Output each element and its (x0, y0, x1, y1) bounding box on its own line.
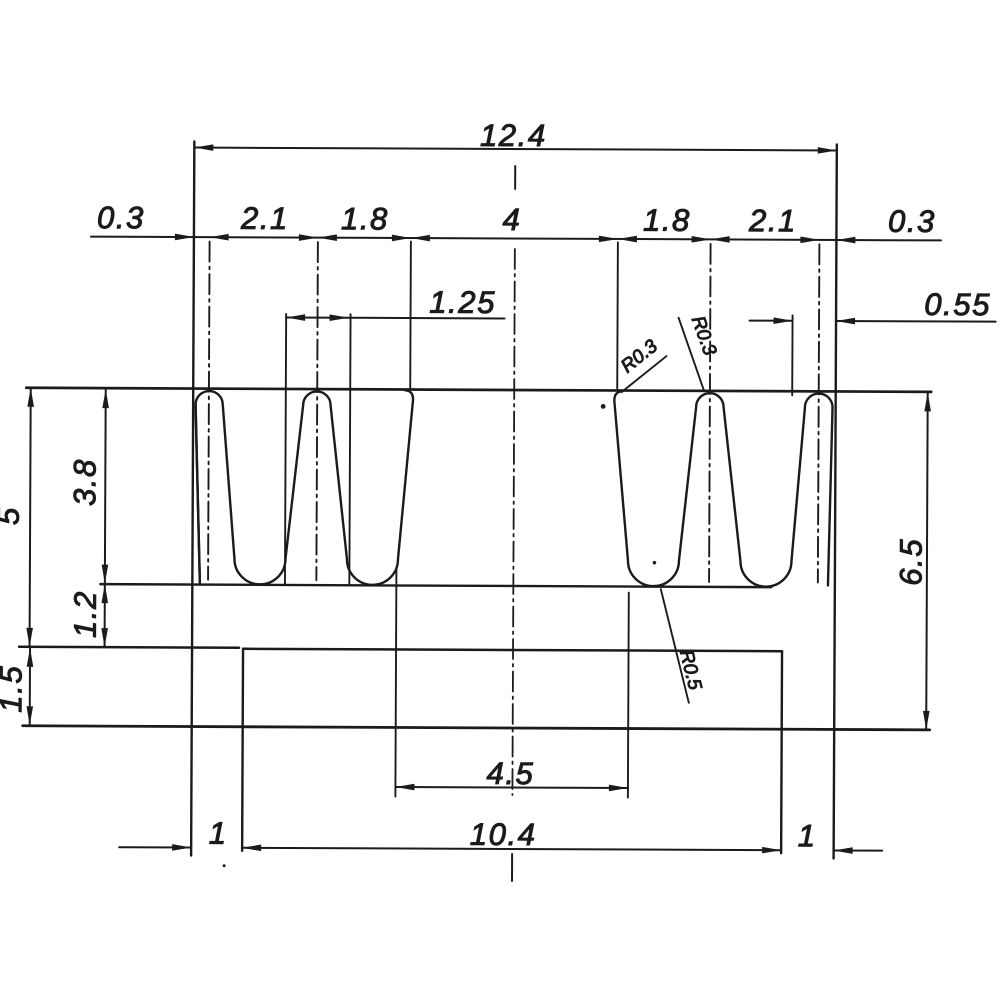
dimension 5 (0, 388, 34, 647)
extension line x=397 (4.5 left) (395, 569, 396, 796)
extension line x=350 (1.25 right) (349, 314, 350, 584)
dimension 1 right (798, 818, 883, 854)
svg-text:1.2: 1.2 (68, 590, 103, 638)
leader R0.3 (slot 5 cap) (678, 313, 720, 391)
svg-text:12.4: 12.4 (480, 118, 547, 153)
svg-text:1.5: 1.5 (0, 665, 28, 713)
svg-text:0.55: 0.55 (924, 287, 991, 322)
svg-text:1: 1 (798, 818, 817, 853)
svg-text:0.3: 0.3 (97, 200, 145, 235)
slot 1, fin A, slot 2, fin B, middle slot left wall (195, 389, 413, 585)
svg-text:2.1: 2.1 (748, 203, 797, 238)
dimension 1.5 (0, 648, 33, 726)
svg-text:2.1: 2.1 (240, 201, 289, 236)
dimension 1.25 (286, 284, 505, 322)
chain dimension row 0.3 / 2.1 / 1.8 / 4 / 1.8 / 2.1 / 0.3 (91, 200, 941, 244)
svg-text:3.8: 3.8 (67, 458, 102, 506)
svg-text:5: 5 (0, 506, 26, 525)
ink speck below base (223, 864, 226, 867)
right edge (834, 144, 837, 858)
slot 1 centerline (208, 242, 210, 580)
base top line (243, 649, 782, 651)
left lip line (19, 646, 239, 649)
svg-text:10.4: 10.4 (470, 817, 537, 852)
dimension 4.5 (395, 755, 628, 791)
leader R0.3 (middle slot corner) (617, 336, 666, 393)
dimension 1 left (119, 815, 228, 851)
dimension 10.4 (242, 816, 781, 854)
dimension 1.2 (68, 584, 109, 647)
svg-text:4.5: 4.5 (486, 756, 534, 791)
dimension 12.4 (194, 117, 837, 155)
dimension 0.55 (750, 286, 996, 325)
svg-text:1.8: 1.8 (643, 203, 691, 238)
extension line x=617 (616, 242, 619, 388)
extension line x=410 (409, 242, 412, 390)
base right edge (780, 651, 783, 853)
slot 2 centerline (316, 242, 318, 580)
ink dot near middle slot (601, 404, 606, 409)
svg-text:0.3: 0.3 (888, 204, 936, 239)
dimension 6.5 (893, 392, 931, 730)
dimension 3.8 (67, 389, 109, 584)
slot 5 centerline (709, 244, 711, 582)
base left edge (241, 649, 244, 851)
main vertical centerline (514, 166, 516, 189)
fin tip / slot floor line (100, 584, 771, 587)
svg-text:1.8: 1.8 (341, 201, 389, 236)
svg-text:1.25: 1.25 (429, 285, 496, 320)
ink dot on fin C (653, 561, 657, 565)
leader R0.5 (fin C tip) (660, 589, 705, 703)
extension line x=629.5 (4.5 right) (627, 593, 630, 798)
left edge (191, 142, 194, 856)
middle slot right wall, fin C, slot 5, fin D, slot 6 (614, 391, 833, 587)
bottom line (23, 726, 930, 730)
svg-text:1: 1 (209, 816, 228, 851)
extension line x=792 (0.55) (791, 315, 793, 395)
extension line x=285.6 (1.25 left) (285, 314, 286, 584)
slot 1 left wall (195, 405, 201, 583)
svg-text:6.5: 6.5 (893, 538, 928, 586)
slot 6 centerline (818, 244, 820, 582)
svg-text:4: 4 (502, 202, 521, 237)
top surface line (26, 388, 931, 392)
